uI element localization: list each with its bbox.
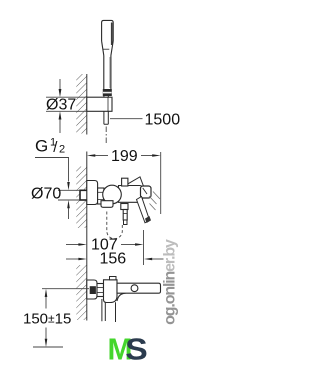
bottom view: bar fillet: [117, 293, 126, 301]
svg-text:156: 156: [100, 251, 127, 268]
mixer middle: ball body: [103, 185, 122, 204]
wall hatching middle section: [76, 167, 87, 229]
svg-text:og.onliner.by: og.onliner.by: [162, 239, 179, 325]
dimension 150±15 down arrow: [45, 328, 47, 340]
svg-text:150±15: 150±15: [23, 311, 71, 328]
mixer middle: pipe box in wall: [80, 190, 88, 200]
dashed hose U-curve: [107, 212, 123, 239]
svg-text:Ø37: Ø37: [46, 97, 76, 114]
leader line 1500: [110, 118, 143, 120]
dimension 150±15 ref line: [42, 288, 89, 290]
dimension 150±15 up arrow: [45, 289, 48, 297]
mixer middle: lever knuckle: [141, 186, 152, 198]
wall line middle+bottom sections: [86, 152, 88, 321]
hose centerline dash-dot: [105, 127, 107, 146]
dimension Ø37 arrows: [59, 79, 61, 90]
svg-text:1500: 1500: [145, 112, 181, 129]
lever swing dashes: [149, 192, 160, 211]
mixer middle: cartridge cap: [122, 178, 128, 186]
bottom view: union nut: [97, 284, 104, 297]
hand shower handle: [104, 56, 111, 90]
mixer middle: lever blade: [128, 177, 144, 188]
G1/2 leader underline + drop: [35, 158, 69, 182]
wall hatching bottom section: [76, 265, 87, 320]
svg-text:Ø70: Ø70: [31, 186, 61, 203]
mixer middle: cartridge housing: [119, 186, 143, 203]
bottom view: dark pipe square: [90, 286, 96, 294]
hand shower head: [102, 20, 114, 89]
bottom view: cap stub: [110, 277, 117, 280]
dimension 156: [66, 258, 79, 260]
mixer middle: union nut: [98, 188, 104, 204]
dimension 107: [66, 244, 79, 246]
mixer middle: outlet flange: [121, 204, 128, 210]
svg-text:S: S: [125, 332, 148, 367]
wall holder arm: [87, 97, 112, 111]
mixer middle: outlet tube: [124, 220, 128, 225]
dimension 199: [160, 152, 162, 214]
svg-text:2: 2: [59, 144, 65, 156]
dimension Ø70 up arrow: [68, 208, 70, 219]
wall hatching top section: [76, 74, 87, 134]
hand shower seam line: [103, 48, 110, 50]
watermark og.onliner.by: [162, 239, 179, 325]
hand shower hose nut: [103, 89, 112, 96]
bottom view: escutcheon: [87, 280, 97, 299]
hose tube below holder: [104, 96, 108, 124]
dimension Ø37 ext lines: [46, 96, 87, 98]
bottom view: bar circle: [131, 285, 138, 292]
mixer middle: under-ball block: [101, 201, 113, 208]
bottom view: outlet tube down: [102, 299, 116, 322]
mixer middle: lever tip: [145, 216, 151, 223]
svg-text:199: 199: [111, 148, 138, 165]
bottom view: body block: [104, 280, 118, 303]
hand shower head shading: [111, 23, 113, 46]
mixer middle: outlet nipple: [123, 210, 127, 221]
mixer middle: escutcheon: [87, 181, 98, 205]
dimension Ø70 ext lines: [58, 189, 80, 191]
mixer middle: lever shaft: [137, 197, 150, 223]
floor reference line: [33, 346, 63, 348]
hand shower taper: [102, 41, 114, 56]
wall line top section: [86, 74, 88, 135]
bottom view: spout bar: [117, 283, 161, 293]
svg-text:G: G: [35, 137, 48, 156]
holder seam: [107, 97, 109, 111]
